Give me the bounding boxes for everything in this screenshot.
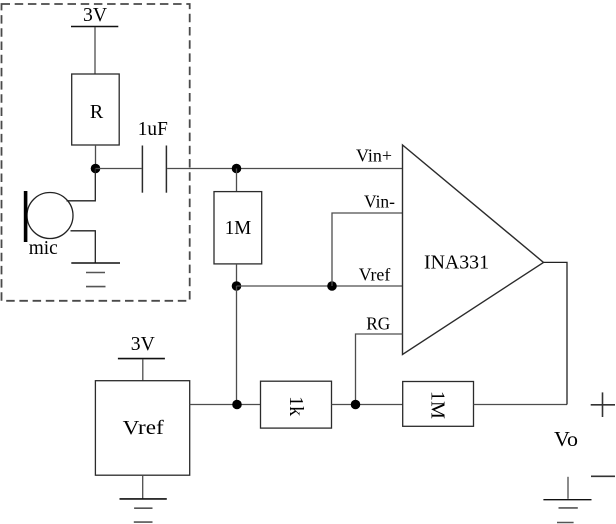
svg-text:mic: mic [29, 237, 58, 259]
svg-text:3V: 3V [83, 4, 108, 26]
svg-text:Vo: Vo [554, 427, 578, 451]
wire mic top terminal to node A [67, 169, 96, 201]
supply 3V rail bar (Vref) [118, 358, 165, 360]
svg-text:R: R [90, 101, 104, 123]
wire 1M bottom to node C [236, 264, 238, 286]
node D junction dot [327, 281, 337, 291]
svg-text:1k: 1k [285, 396, 307, 416]
wire Vref row node C to op-amp [237, 285, 403, 287]
svg-text:RG: RG [366, 313, 390, 333]
wire capacitor to op-amp Vin+ [167, 168, 402, 170]
ground (Vref) [120, 475, 167, 522]
wire node C down to node E [236, 286, 238, 405]
svg-text:Vin-: Vin- [364, 191, 395, 211]
wire 1M feedback to output corner [474, 404, 568, 406]
resistor 1M (shunt) [214, 192, 262, 264]
svg-text:Vref: Vref [359, 264, 391, 284]
wire 3V rail to R [94, 27, 96, 74]
wire 3V rail to Vref box [142, 359, 144, 381]
resistor 1k [261, 381, 332, 428]
ground (mic) [71, 263, 120, 287]
svg-text:1M: 1M [225, 217, 252, 239]
svg-text:Vref: Vref [123, 417, 164, 439]
resistor R [72, 74, 120, 145]
capacitor C 1uF [142, 146, 166, 193]
node C junction dot [232, 281, 242, 291]
output minus terminal [591, 475, 615, 477]
wire RG branch [356, 334, 403, 405]
svg-text:INA331: INA331 [424, 252, 489, 274]
mic module dashed boundary [2, 4, 190, 301]
output plus terminal [591, 392, 615, 417]
wire R to node A [95, 145, 97, 169]
node A junction dot [91, 164, 101, 174]
node B junction dot [232, 164, 242, 174]
svg-text:1uF: 1uF [138, 118, 168, 140]
wire node A to capacitor [96, 168, 142, 170]
node F junction dot [351, 400, 361, 410]
wire node B to 1M top [236, 169, 238, 192]
wire mic bottom terminal to ground [71, 231, 96, 263]
voltage reference Vref box [95, 381, 189, 476]
svg-text:1M: 1M [427, 391, 449, 419]
supply 3V rail bar (mic) [71, 26, 118, 28]
resistor 1M (feedback) [403, 382, 474, 427]
microphone body [27, 193, 73, 239]
wire 1k to 1M feedback [332, 404, 403, 406]
ground (output) [543, 477, 591, 523]
op-amp U1 INA331 [403, 145, 544, 355]
wire op-amp output [544, 262, 568, 404]
microphone diaphragm bar [24, 191, 28, 242]
wire Vin- branch [332, 213, 403, 286]
svg-text:Vin+: Vin+ [356, 145, 392, 165]
svg-text:3V: 3V [131, 333, 156, 355]
node E junction dot [232, 400, 242, 410]
wire Vref out to 1k [190, 404, 261, 406]
